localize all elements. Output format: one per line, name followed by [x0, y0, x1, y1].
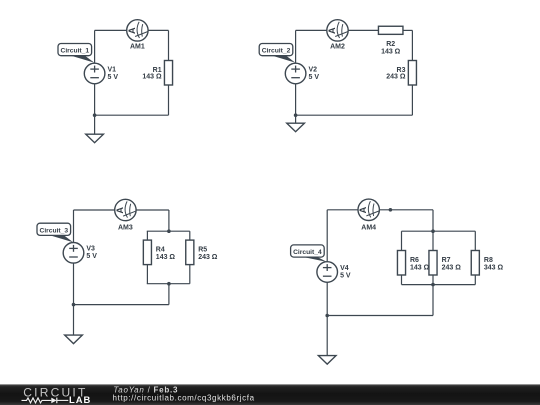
svg-text:A: A: [127, 27, 137, 34]
wire C2 bottom: [296, 114, 413, 116]
resistor R8: [471, 251, 479, 276]
svg-text:5 V: 5 V: [108, 74, 119, 81]
svg-text:V1: V1: [108, 66, 117, 73]
svg-text:AM1: AM1: [130, 44, 145, 51]
svg-text:LAB: LAB: [69, 394, 91, 405]
wire C4 R6 bottom stub: [401, 275, 403, 285]
footer url: [113, 394, 255, 403]
svg-text:AM2: AM2: [330, 44, 345, 51]
wire C3 top-left segment: [74, 209, 115, 211]
junction C4 ground node: [325, 314, 329, 318]
wire C1 left upper: [94, 30, 96, 63]
svg-text:R6: R6: [410, 257, 419, 264]
wire C3 R5 bottom stub: [189, 264, 191, 283]
ground C1: [86, 115, 104, 143]
junction C3 bottom rail: [167, 282, 171, 286]
junction C2 ground node: [294, 113, 298, 117]
wire C1 right lower: [168, 85, 170, 115]
svg-text:A: A: [115, 207, 125, 214]
label R7 243 Ω: [442, 257, 462, 272]
wire C3 bottom: [74, 304, 169, 306]
wire C3 drop to bottom: [168, 284, 170, 305]
wire C2 top-left segment: [296, 29, 327, 31]
label R8 343 Ω: [484, 257, 504, 272]
node label Circuit_4: [291, 245, 327, 262]
wire C4 R8 bottom stub: [474, 275, 476, 285]
svg-text:143 Ω: 143 Ω: [142, 74, 162, 81]
resistor R5: [186, 240, 194, 265]
svg-text:143 Ω: 143 Ω: [410, 264, 430, 271]
ground C3: [65, 305, 83, 344]
label V1 5 V: [108, 66, 119, 81]
svg-text:5 V: 5 V: [340, 272, 351, 279]
label V3 5 V: [86, 246, 97, 261]
voltage source V4: [317, 262, 338, 283]
svg-text:R5: R5: [198, 247, 207, 254]
footer background bar: [0, 384, 540, 405]
wire C3 left lower: [73, 263, 75, 305]
node label Circuit_1: [58, 44, 94, 63]
label R1 143 Ω: [142, 67, 162, 81]
wire C3 drop to parallel: [168, 210, 170, 231]
wire C2 right lower: [411, 85, 413, 115]
voltage source V1: [84, 63, 105, 84]
wire C4 left lower: [326, 282, 328, 315]
label AM1: [130, 44, 145, 51]
resistor R4: [143, 240, 151, 265]
label R4 143 Ω: [156, 247, 176, 261]
svg-text:5 V: 5 V: [86, 253, 97, 260]
label R3 243 Ω: [386, 67, 406, 81]
resistor R2: [378, 26, 403, 34]
svg-text:AM3: AM3: [118, 225, 133, 232]
node label Circuit_3: [37, 223, 73, 242]
svg-text:AM4: AM4: [361, 224, 376, 231]
wire C4 left upper: [326, 210, 328, 262]
svg-text:243 Ω: 243 Ω: [442, 264, 462, 271]
wire C4 R8 top stub: [474, 231, 476, 250]
wire C3 R5 top stub: [189, 231, 191, 240]
wire C4 top-left segment: [327, 209, 358, 211]
svg-text:5 V: 5 V: [309, 74, 320, 81]
wire C3 top-right segment: [136, 209, 169, 211]
resistor R1: [164, 61, 172, 86]
label R2 143 Ω: [381, 41, 401, 56]
svg-text:R4: R4: [156, 247, 165, 254]
wire C2 left lower: [295, 84, 297, 116]
label R5 243 Ω: [198, 247, 218, 261]
wire C3 R4 bottom stub: [146, 264, 148, 283]
logo text CIRCUIT: [23, 385, 87, 399]
resistor R6: [397, 251, 405, 276]
node label Circuit_2: [259, 44, 295, 63]
wire C3 bottom rail: [147, 283, 190, 285]
wire C3 R4 top stub: [146, 231, 148, 240]
junction C4 bottom rail: [431, 283, 435, 287]
junction C3 ground node: [72, 303, 76, 307]
svg-text:143 Ω: 143 Ω: [381, 48, 401, 55]
footer author TaoYan / Feb.3: [113, 386, 178, 395]
label R6 143 Ω: [410, 257, 430, 272]
ground C2: [287, 115, 305, 132]
svg-text:http://circuitlab.com/cq3gkkb6: http://circuitlab.com/cq3gkkb6rjcfa: [113, 394, 255, 403]
svg-text:V3: V3: [86, 246, 95, 253]
svg-text:V2: V2: [309, 66, 318, 73]
label V4 5 V: [340, 265, 351, 280]
svg-text:A: A: [327, 27, 337, 34]
logo resistor-diode squiggle: [22, 398, 69, 404]
svg-text:243 Ω: 243 Ω: [386, 74, 406, 81]
wire C1 top-right segment: [148, 29, 168, 31]
wire C4 R6 top stub: [401, 231, 403, 250]
svg-text:343 Ω: 343 Ω: [484, 264, 504, 271]
ammeter AM2: [327, 20, 348, 41]
wire C1 right upper: [168, 30, 170, 60]
wire C4 top-right segment: [379, 209, 433, 211]
junction C1 ground node: [93, 113, 97, 117]
voltage source V2: [285, 63, 306, 84]
wire C2 left upper: [295, 30, 297, 63]
wire C4 bottom: [327, 315, 433, 317]
ammeter AM1: [127, 20, 148, 41]
logo text LAB: [69, 394, 91, 405]
wire C2 right upper: [411, 30, 413, 60]
resistor R7: [429, 251, 437, 276]
wire C1 top-left segment: [95, 29, 127, 31]
wire C4 drop to bottom: [432, 285, 434, 316]
svg-text:V4: V4: [340, 265, 349, 272]
junction C3 top rail: [167, 229, 171, 233]
ground C4: [318, 316, 336, 365]
svg-text:R8: R8: [484, 257, 493, 264]
svg-text:243 Ω: 243 Ω: [198, 254, 218, 261]
svg-text:Circuit_4: Circuit_4: [293, 249, 322, 256]
wire C1 left lower: [94, 84, 96, 116]
ammeter AM4: [358, 199, 379, 220]
wire C2 top-mid segment: [348, 29, 378, 31]
svg-text:A: A: [358, 206, 368, 213]
svg-text:R2: R2: [386, 41, 395, 48]
svg-text:Circuit_2: Circuit_2: [262, 48, 291, 55]
label AM4: [361, 224, 376, 231]
label AM2: [330, 44, 345, 51]
wire C4 top rail: [402, 230, 476, 232]
wire C4 R7 top stub: [432, 231, 434, 250]
wire C4 R7 bottom stub: [432, 275, 434, 285]
wire C4 bottom rail: [402, 284, 476, 286]
svg-text:Circuit_1: Circuit_1: [60, 48, 89, 55]
svg-text:Circuit_3: Circuit_3: [39, 227, 68, 234]
voltage source V3: [63, 243, 84, 264]
ammeter AM3: [115, 199, 136, 220]
wire C2 top-right segment: [403, 29, 412, 31]
svg-text:143 Ω: 143 Ω: [156, 254, 176, 261]
wire C1 bottom: [95, 114, 169, 116]
wire C4 drop to parallel: [432, 210, 434, 231]
junction C4 top rail: [431, 229, 435, 233]
label V2 5 V: [309, 66, 320, 81]
svg-text:R7: R7: [442, 257, 451, 264]
junction C4 top wire: [389, 208, 393, 212]
wire C3 top rail: [147, 230, 190, 232]
wire C3 left upper: [73, 210, 75, 243]
resistor R3: [408, 61, 416, 86]
label AM3: [118, 225, 133, 232]
